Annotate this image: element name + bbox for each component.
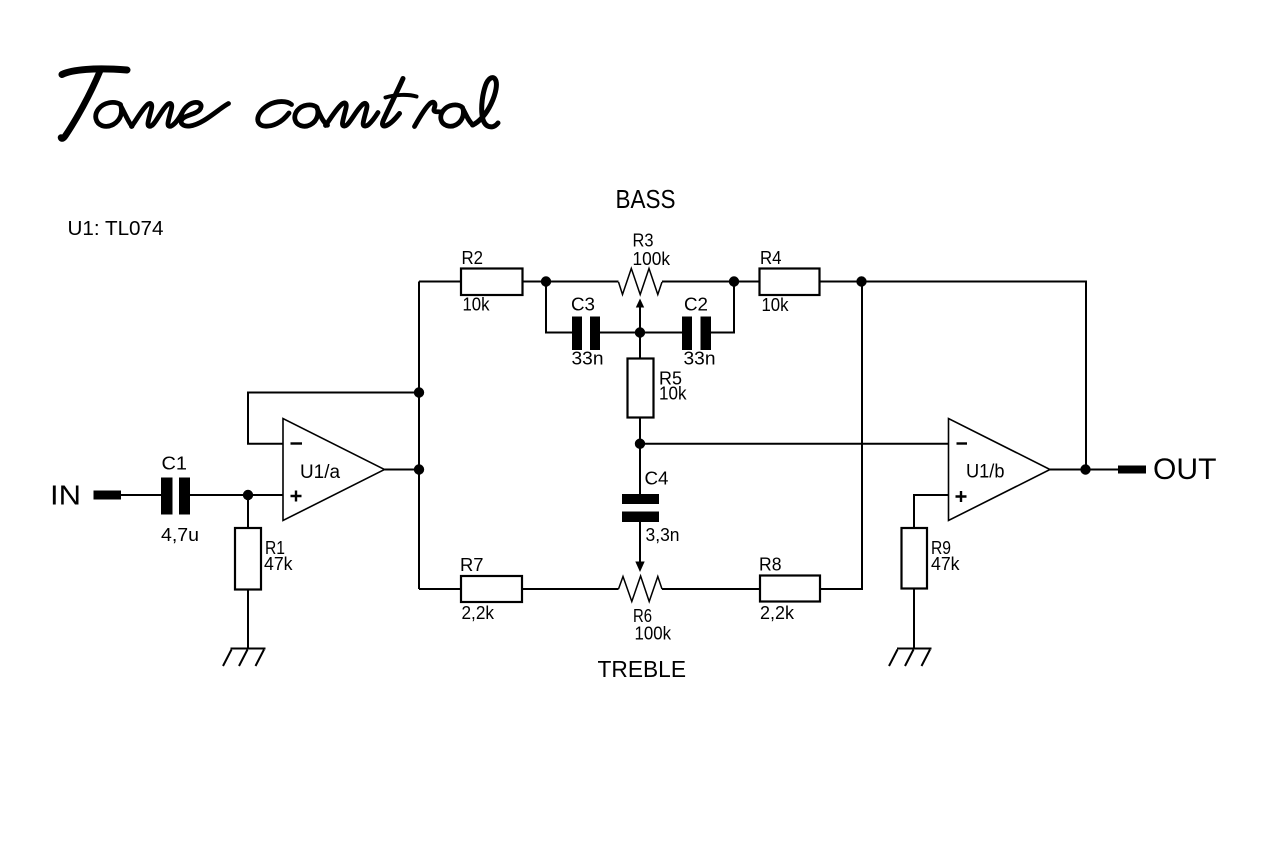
svg-text:R8: R8 — [759, 555, 782, 575]
svg-text:R2: R2 — [462, 248, 484, 268]
svg-text:33n: 33n — [684, 349, 716, 369]
svg-text:10k: 10k — [659, 384, 687, 404]
svg-text:C3: C3 — [571, 295, 595, 315]
svg-text:U1: TL074: U1: TL074 — [68, 218, 164, 240]
svg-text:IN: IN — [50, 480, 81, 511]
svg-text:C2: C2 — [684, 295, 708, 315]
svg-text:C1: C1 — [162, 454, 188, 474]
svg-text:OUT: OUT — [1153, 453, 1217, 486]
svg-text:U1/b: U1/b — [966, 462, 1005, 483]
svg-text:47k: 47k — [264, 554, 293, 574]
svg-text:2,2k: 2,2k — [760, 603, 795, 623]
svg-text:R4: R4 — [760, 248, 782, 268]
svg-text:2,2k: 2,2k — [462, 603, 495, 623]
svg-text:47k: 47k — [931, 554, 960, 574]
svg-text:BASS: BASS — [616, 186, 676, 214]
svg-text:100k: 100k — [633, 249, 671, 269]
svg-text:R3: R3 — [633, 231, 654, 251]
svg-text:10k: 10k — [463, 295, 491, 315]
svg-text:10k: 10k — [762, 295, 790, 315]
svg-text:100k: 100k — [635, 624, 672, 644]
svg-text:R7: R7 — [460, 555, 484, 575]
svg-text:C4: C4 — [645, 469, 669, 489]
svg-text:U1/a: U1/a — [300, 462, 340, 483]
svg-text:4,7u: 4,7u — [161, 525, 199, 545]
svg-text:TREBLE: TREBLE — [598, 656, 687, 682]
svg-text:33n: 33n — [572, 349, 604, 369]
svg-text:3,3n: 3,3n — [646, 525, 680, 545]
